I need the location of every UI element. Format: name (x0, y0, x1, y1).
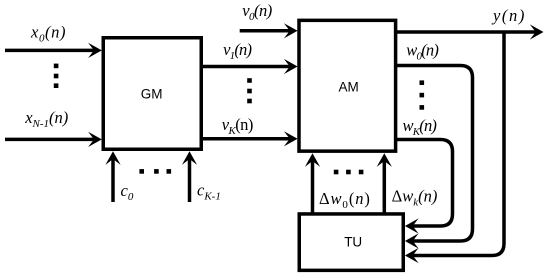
wire y feedback to TU (412, 32, 504, 256)
svg-text:y(n): y(n) (491, 6, 526, 25)
svg-text:c0: c0 (121, 181, 134, 203)
arrowhead dw0 (305, 153, 320, 167)
wire v1 (203, 65, 290, 69)
arrowhead y (530, 24, 544, 39)
wire dwk (383, 160, 387, 214)
arrowhead v0 (284, 23, 298, 38)
arrowhead into TU from wK (405, 218, 419, 233)
svg-text:Δwk(n): Δwk(n) (392, 186, 438, 208)
svg-text:xN-1(n): xN-1(n) (24, 108, 68, 130)
arrowhead vK (284, 131, 298, 146)
wire v0 input (240, 29, 290, 33)
wire c0 (111, 158, 115, 202)
arrowhead dwk (377, 153, 392, 167)
svg-text:v1(n): v1(n) (223, 40, 251, 62)
wire w0 feedback (395, 66, 473, 242)
dots between v wires (247, 78, 252, 103)
dots between dw wires (334, 170, 364, 175)
arrowhead xN-1 (88, 132, 102, 147)
dots between w wires (420, 80, 425, 109)
svg-text:w0(n): w0(n) (406, 41, 438, 63)
svg-text:x0(n): x0(n) (30, 22, 66, 44)
wire x0 input (5, 49, 94, 53)
wire wK feedback (395, 140, 453, 227)
wire vK (203, 137, 290, 141)
arrowhead into TU from y (405, 248, 419, 263)
dots between x inputs (54, 64, 59, 88)
box GM (103, 38, 201, 150)
svg-text:Δw0(n): Δw0(n) (319, 189, 371, 211)
wire cK-1 (188, 158, 192, 202)
svg-text:v0(n): v0(n) (242, 1, 272, 23)
arrowhead v1 (284, 59, 298, 74)
wire y output (395, 30, 536, 34)
arrowhead x0 (88, 43, 102, 58)
wire xN-1 input (5, 138, 94, 142)
arrowhead into TU from w0 (405, 233, 419, 248)
svg-text:GM: GM (141, 87, 163, 102)
box TU (299, 214, 403, 270)
wire dw0 (311, 160, 315, 214)
arrowhead c0 (105, 151, 120, 165)
svg-text:vK(n): vK(n) (222, 115, 253, 137)
box AM (299, 20, 396, 151)
svg-text:TU: TU (344, 235, 362, 250)
dots between c wires (139, 169, 171, 174)
svg-text:wK(n): wK(n) (403, 116, 437, 138)
svg-text:cK-1: cK-1 (197, 181, 221, 203)
arrowhead cK-1 (182, 151, 197, 165)
svg-text:AM: AM (339, 79, 359, 94)
